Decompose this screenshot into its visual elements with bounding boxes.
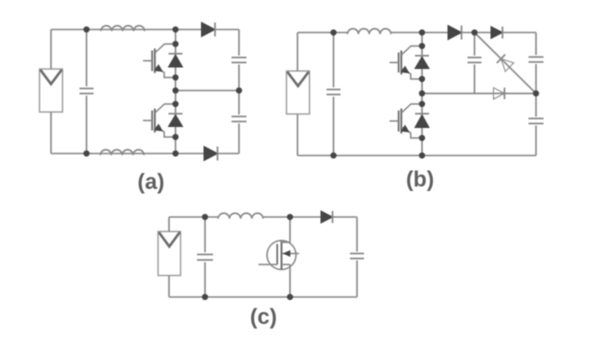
svg-text:(c): (c) <box>250 304 277 329</box>
svg-text:(b): (b) <box>406 166 434 191</box>
svg-text:(a): (a) <box>138 169 165 194</box>
